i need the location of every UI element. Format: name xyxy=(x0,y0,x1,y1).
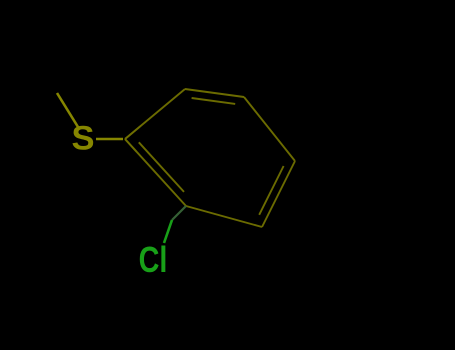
benzene ring: edge R-BR xyxy=(262,161,295,227)
bond ring to Cl (dark upper part) xyxy=(172,206,186,220)
svg-text:Cl: Cl xyxy=(139,239,168,280)
aromatic inner line of R-BR xyxy=(259,166,283,215)
aromatic inner line of CV-C1 xyxy=(139,142,184,192)
benzene ring: edge BR-CV xyxy=(186,206,262,227)
bright stub of edge C1-T near S junction xyxy=(125,126,141,139)
methyl bond CH3-S xyxy=(57,93,78,127)
benzene ring: edge C1-T xyxy=(125,89,185,139)
aromatic inner line of T-TR xyxy=(192,98,236,104)
bright stub of edge CV-C1 near S junction xyxy=(125,139,137,152)
benzene ring: edge T-TR xyxy=(185,89,244,97)
benzene ring: edge CV-C1 xyxy=(125,139,186,206)
bond S to ring C1 xyxy=(96,138,123,141)
bond ring to Cl (bright lower part) xyxy=(164,220,172,243)
svg-text:S: S xyxy=(71,120,94,158)
benzene ring: edge TR-R xyxy=(244,97,295,161)
